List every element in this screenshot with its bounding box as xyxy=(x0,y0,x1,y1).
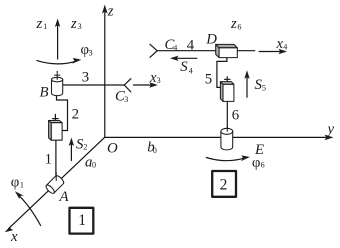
svg-text:1: 1 xyxy=(78,212,86,229)
svg-text:3: 3 xyxy=(78,22,82,31)
svg-text:0: 0 xyxy=(92,160,96,169)
svg-text:O: O xyxy=(107,140,118,156)
svg-text:z: z xyxy=(70,16,77,32)
svg-text:6: 6 xyxy=(261,161,265,170)
svg-text:B: B xyxy=(40,85,49,101)
svg-text:5: 5 xyxy=(205,71,212,87)
svg-text:6: 6 xyxy=(237,23,241,32)
svg-text:0: 0 xyxy=(153,146,157,155)
svg-text:3: 3 xyxy=(124,95,128,104)
svg-text:1: 1 xyxy=(20,180,24,189)
svg-text:φ: φ xyxy=(252,155,261,171)
svg-text:1: 1 xyxy=(43,22,47,31)
svg-text:4: 4 xyxy=(173,44,177,53)
svg-text:φ: φ xyxy=(11,174,20,190)
svg-text:6: 6 xyxy=(232,108,239,124)
svg-text:4: 4 xyxy=(187,37,195,53)
svg-text:2: 2 xyxy=(83,143,87,152)
svg-text:x: x xyxy=(10,229,18,245)
svg-text:z: z xyxy=(107,4,114,20)
svg-text:1: 1 xyxy=(45,152,52,168)
svg-text:S: S xyxy=(180,59,188,75)
svg-text:z: z xyxy=(230,16,237,32)
svg-text:z: z xyxy=(36,16,43,32)
svg-text:y: y xyxy=(326,122,335,138)
svg-text:5: 5 xyxy=(262,83,266,92)
svg-text:2: 2 xyxy=(72,106,79,122)
svg-text:4: 4 xyxy=(283,43,287,52)
svg-text:2: 2 xyxy=(220,177,228,194)
svg-text:3: 3 xyxy=(82,70,89,86)
svg-text:A: A xyxy=(59,189,70,205)
svg-text:D: D xyxy=(205,32,217,48)
svg-text:3: 3 xyxy=(157,76,161,85)
svg-text:4: 4 xyxy=(189,66,193,75)
svg-text:3: 3 xyxy=(89,48,93,57)
